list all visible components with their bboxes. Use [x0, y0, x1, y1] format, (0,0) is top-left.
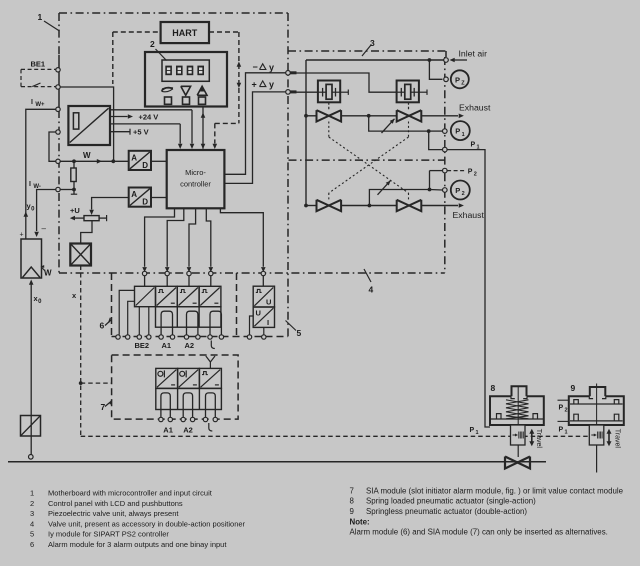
svg-text:+5 V: +5 V — [133, 128, 149, 137]
svg-text:A1: A1 — [162, 341, 172, 350]
svg-text:Iy module for SIPART PS2 contr: Iy module for SIPART PS2 controller — [48, 530, 169, 539]
svg-text:6: 6 — [100, 321, 105, 331]
svg-text:W: W — [44, 269, 52, 278]
svg-text:2: 2 — [474, 172, 477, 178]
svg-text:D: D — [142, 161, 148, 170]
svg-text:1: 1 — [462, 132, 465, 138]
svg-text:y: y — [269, 62, 274, 72]
svg-text:P: P — [455, 127, 460, 136]
svg-text:Micro-: Micro- — [185, 168, 206, 177]
svg-text:1: 1 — [30, 489, 34, 498]
svg-text:BE1: BE1 — [31, 60, 46, 69]
svg-text:7: 7 — [101, 402, 106, 412]
svg-text:8: 8 — [350, 497, 355, 506]
svg-text:Inlet air: Inlet air — [459, 48, 488, 58]
svg-text:P: P — [559, 426, 564, 433]
svg-text:+24 V: +24 V — [139, 113, 159, 122]
svg-text:2: 2 — [565, 407, 568, 413]
svg-text:Springless pneumatic actuator: Springless pneumatic actuator (double-ac… — [366, 507, 527, 516]
svg-text:4: 4 — [369, 285, 374, 295]
svg-text:1: 1 — [565, 429, 568, 435]
svg-text:A1: A1 — [163, 426, 173, 435]
svg-text:2: 2 — [30, 499, 34, 508]
svg-text:Travel: Travel — [614, 429, 621, 449]
svg-text:I: I — [267, 318, 269, 327]
svg-text:+: + — [252, 79, 257, 89]
svg-text:Valve unit, present as accesso: Valve unit, present as accessory in doub… — [48, 519, 246, 528]
svg-text:Travel: Travel — [535, 429, 542, 449]
svg-text:Piezoelectric valve unit, alwa: Piezoelectric valve unit, always present — [48, 509, 179, 518]
svg-text:SIA module (slot initiator ala: SIA module (slot initiator alarm module,… — [366, 487, 624, 496]
svg-text:W+: W+ — [35, 102, 45, 108]
svg-text:2: 2 — [462, 191, 465, 197]
svg-text:A: A — [131, 153, 137, 162]
svg-text:W: W — [83, 151, 91, 160]
svg-text:−: − — [253, 62, 258, 72]
svg-text:6: 6 — [30, 540, 34, 549]
svg-text:P: P — [468, 169, 473, 176]
svg-text:U: U — [256, 309, 261, 318]
svg-text:P: P — [559, 404, 564, 411]
svg-text:8: 8 — [491, 383, 496, 393]
svg-text:9: 9 — [571, 383, 576, 393]
svg-text:5: 5 — [30, 530, 34, 539]
svg-text:7: 7 — [350, 487, 354, 496]
svg-text:HART: HART — [172, 28, 197, 38]
svg-text:4: 4 — [30, 519, 34, 528]
svg-text:+: + — [20, 232, 24, 239]
svg-text:Spring loaded pneumatic actuat: Spring loaded pneumatic actuator (single… — [366, 497, 536, 506]
svg-text:P: P — [455, 75, 460, 84]
svg-text:A: A — [131, 190, 137, 199]
svg-text:9: 9 — [350, 507, 355, 516]
svg-text:A2: A2 — [183, 426, 193, 435]
svg-text:Alarm module (6) and SIA modul: Alarm module (6) and SIA module (7) can … — [350, 528, 608, 537]
svg-text:P: P — [470, 427, 475, 434]
svg-text:3: 3 — [370, 38, 375, 48]
svg-text:D: D — [142, 198, 148, 207]
svg-text:BE2: BE2 — [135, 341, 150, 350]
svg-text:1: 1 — [38, 12, 43, 22]
svg-text:Exhaust: Exhaust — [453, 210, 485, 220]
svg-text:A2: A2 — [185, 341, 195, 350]
svg-text:Control panel with LCD and pus: Control panel with LCD and pushbuttons — [48, 499, 183, 508]
svg-text:controller: controller — [180, 179, 211, 188]
svg-text:P: P — [471, 142, 476, 149]
svg-text:Note:: Note: — [350, 518, 370, 527]
svg-text:1: 1 — [476, 430, 479, 436]
svg-text:I: I — [29, 181, 31, 188]
svg-text:U: U — [266, 298, 271, 307]
svg-text:+U: +U — [70, 206, 80, 215]
svg-text:I: I — [31, 99, 33, 106]
svg-text:2: 2 — [150, 39, 155, 49]
svg-text:Exhaust: Exhaust — [459, 103, 491, 113]
svg-text:Alarm module for 3 alarm outpu: Alarm module for 3 alarm outputs and one… — [48, 540, 227, 549]
svg-text:3: 3 — [30, 509, 34, 518]
svg-text:–: – — [42, 224, 47, 233]
svg-text:P: P — [455, 186, 460, 195]
svg-text:5: 5 — [297, 328, 302, 338]
svg-text:y: y — [269, 79, 274, 89]
svg-text:Motherboard with microcontroll: Motherboard with microcontroller and inp… — [48, 489, 213, 498]
